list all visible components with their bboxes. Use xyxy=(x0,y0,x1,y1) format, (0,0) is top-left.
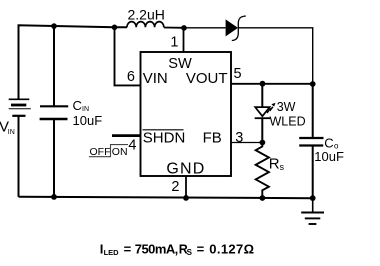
LED D2 3W WLED xyxy=(255,100,306,129)
node junction at Cin top xyxy=(51,23,57,29)
svg-text:6: 6 xyxy=(127,69,135,85)
wire top rail left (battery+ to inductor) xyxy=(19,25,128,98)
svg-text:OFF: OFF xyxy=(90,146,111,158)
svg-text:2: 2 xyxy=(171,179,179,195)
wire bottom rail xyxy=(19,197,313,199)
svg-text:GND: GND xyxy=(166,161,205,178)
svg-text:SHDN: SHDN xyxy=(143,129,186,146)
svg-text:750mA,: 750mA, xyxy=(135,242,178,257)
node junction SW xyxy=(181,25,187,31)
svg-text:10uF: 10uF xyxy=(314,149,344,164)
svg-text:VIN: VIN xyxy=(143,70,168,87)
OFF/ON annotation xyxy=(89,145,128,158)
svg-text:3: 3 xyxy=(235,130,243,146)
svg-text:LED: LED xyxy=(104,248,120,257)
svg-text:C: C xyxy=(73,98,82,113)
op IC U1 boost converter xyxy=(141,52,232,178)
wire Co to ground node xyxy=(312,146,314,199)
wire GND pin 2 to bottom rail xyxy=(185,176,187,198)
capacitor CIN 10uF xyxy=(40,26,103,197)
wire LED branch down xyxy=(261,84,263,107)
caption ILED = 750mA, RS = 0.127ohm xyxy=(100,242,255,258)
node junction LED branch xyxy=(260,81,266,87)
wire output node down to Co xyxy=(312,84,314,137)
node junction GND pin xyxy=(183,195,189,201)
diode D1 (Schottky) xyxy=(226,16,246,41)
node junction output corner xyxy=(310,81,316,87)
resistor RS xyxy=(256,143,285,198)
wire SHDN pin 4 stub xyxy=(112,134,141,137)
svg-text:WLED: WLED xyxy=(270,114,306,128)
wire SW node to diode anode xyxy=(184,27,226,29)
node junction at VIN branch xyxy=(112,25,118,31)
wire inductor to SW node xyxy=(164,27,184,29)
ground symbol xyxy=(301,198,324,224)
inductor L1 2.2uH xyxy=(127,7,165,28)
svg-text:5: 5 xyxy=(234,66,242,82)
svg-text:VOUT: VOUT xyxy=(186,70,228,87)
svg-text:IN: IN xyxy=(8,129,15,136)
svg-text:10uF: 10uF xyxy=(73,113,103,128)
label VIN source xyxy=(0,118,15,136)
svg-text:ON: ON xyxy=(112,146,128,158)
wire VIN branch (node down and into pin 6) xyxy=(115,27,141,85)
wire LED cathode to FB node xyxy=(261,118,263,143)
svg-text:2.2uH: 2.2uH xyxy=(128,7,165,23)
svg-text:FB: FB xyxy=(203,129,222,146)
node junction Rs to ground rail xyxy=(260,195,266,201)
svg-text:R: R xyxy=(269,155,280,172)
svg-text:s: s xyxy=(280,162,285,172)
svg-text:=: = xyxy=(124,242,132,257)
capacitor CO 10uF xyxy=(299,135,344,164)
wire FB pin 3 xyxy=(231,142,262,144)
svg-text:1: 1 xyxy=(170,34,178,50)
svg-text:=: = xyxy=(197,242,205,257)
node junction Cin bottom xyxy=(51,194,57,200)
node junction FB/Rs xyxy=(260,140,266,146)
svg-text:S: S xyxy=(187,248,193,257)
wire VOUT pin 5 to output node xyxy=(231,83,313,85)
svg-text:0.127Ω: 0.127Ω xyxy=(209,242,254,257)
svg-text:3W: 3W xyxy=(277,100,296,114)
wire diode cathode to right corner down to VOUT node xyxy=(238,28,312,84)
svg-text:IN: IN xyxy=(82,106,89,113)
wire SW pin 1 xyxy=(183,28,185,52)
svg-text:4: 4 xyxy=(128,138,136,154)
battery V1 xyxy=(9,99,31,197)
node junction bottom right xyxy=(310,195,316,201)
